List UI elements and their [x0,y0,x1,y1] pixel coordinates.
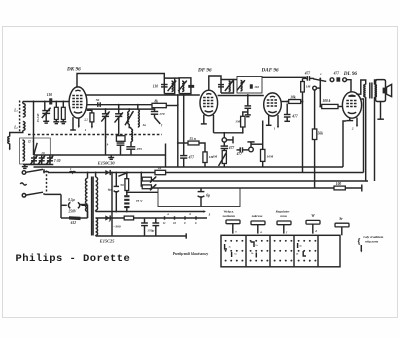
svg-text:0,5µ: 0,5µ [68,198,75,202]
coil unit box [20,138,51,164]
IFT2 coil 1 (arrow) [225,81,233,92]
jack circle 2 (row) [343,78,347,82]
label W [311,214,317,233]
label 6µF [206,194,210,198]
resistor 22k (DK96) [87,110,94,128]
label Przełącznik klawiszowy [173,252,209,256]
output transformer core [370,83,372,99]
label Wyłącz zasilania [222,210,238,234]
svg-text:2b: 2b [295,254,299,256]
label 250V [68,210,77,214]
wire from L2 to antenna coil L6 [10,131,23,137]
switch link (dashed) [46,171,48,193]
capacitor 100 and ground (DAF grid) [245,94,252,117]
wire 18k to vertical [301,101,304,103]
label 15 n [189,137,196,141]
svg-text:6: 6 [105,135,107,139]
label 15-345 (vertical) [36,113,40,122]
jack 2 (pickup circle) [247,142,254,152]
svg-text:9: 9 [184,221,186,225]
coil L4 (oscillator/LW coil) [23,140,25,161]
speaker [376,80,392,102]
svg-text:5a: 5a [234,254,237,256]
svg-text:56k: 56k [318,131,324,135]
jack circle 3 (pickup) [313,85,321,92]
resistor 50 (filter) [125,172,129,191]
label DK 96 [66,67,81,73]
wire DL96 cathode to bus A [343,121,346,167]
bus D [151,187,334,188]
resistor 100 k (DL96 grid) [322,104,343,108]
wire 8k to vertical [166,105,178,107]
label 255 [136,147,143,151]
label E15C25 [99,239,115,244]
rectifier E15C25 (diode) [105,215,110,220]
IFT1 coil 2 (tuned, arrow) [178,81,187,92]
wire mains 2 down [60,194,62,218]
IFT2 capacitor plates [218,85,224,87]
label L2 [13,126,18,130]
svg-text:L2: L2 [13,126,18,130]
potentiometer 1M (volume) [219,149,227,168]
wire jack row to DL96 grid [347,80,352,93]
svg-text:75 V: 75 V [136,199,143,203]
IFT1 coupling capacitor (blob) [188,85,194,88]
svg-text:15 n: 15 n [189,137,196,141]
svg-text:7-30: 7-30 [54,159,61,163]
resistor 110 (series bead in grid wire) [49,98,52,104]
label 1 (pin) [85,128,87,132]
svg-text:e: e [235,229,237,233]
capacitor 477 (AGC) [180,94,187,167]
coil L1 (antenna primary) [20,101,26,134]
label 18k [290,95,296,99]
label 6 [105,135,109,147]
svg-text:477: 477 [188,155,195,159]
svg-text:a: a [260,230,262,234]
label 477 (jack row left) [304,71,311,75]
dashed gang coupling line [28,134,162,136]
svg-text:c: c [309,261,310,263]
label DAF 96 [261,68,279,74]
svg-text:477: 477 [333,71,340,75]
osc trimmer 2 [115,104,123,136]
label 50 [120,183,124,187]
IFT2 capacitor 110 (blob) [250,84,253,88]
svg-text:110: 110 [153,84,158,88]
label 170 [159,112,165,116]
wire bus D end terminal [345,185,362,192]
svg-text:2,2: 2,2 [83,117,88,121]
wire jack row left down [303,78,308,81]
mains switch blade 1 [26,169,48,173]
switch matrix contact dots [225,240,317,262]
wire DF96 anode up to IFT2 [209,76,221,90]
svg-text:zasilania: zasilania [222,214,236,218]
tube DK96 [69,87,87,118]
label 10 [41,151,45,155]
battery tap ticks [165,216,197,219]
capacitor 150µ no.1 [141,218,148,236]
svg-text:8a: 8a [299,246,302,248]
label L1 [13,109,18,113]
label z [208,212,211,216]
label 6µ [108,187,112,191]
svg-text:8k: 8k [155,100,159,104]
label 150µ [147,229,154,233]
svg-text:j: j [285,230,287,234]
svg-text:1M: 1M [212,154,218,158]
svg-text:a: a [33,139,35,143]
wire left vertical from grid wire to tuning-gang rail [33,102,35,156]
wire DL96 screen to bus B [361,99,363,173]
svg-text:Sr: Sr [339,217,343,221]
resistor 10M [251,121,265,168]
bus G (bottom rail) [96,233,187,238]
label zmiana [251,214,263,234]
wire screen line W2 [86,94,264,97]
svg-text:2: 2 [351,127,354,131]
label 110 (IFT1) [153,84,158,88]
wire vertical 320.3 (AVC) down [319,77,321,107]
label 8k [155,100,159,104]
capacitor 255 [126,142,135,156]
wire W4 DK96 to oscillator [87,104,152,106]
svg-text:255: 255 [136,147,143,151]
svg-text:477: 477 [228,146,235,150]
svg-text:250V: 250V [68,210,77,214]
resistor 1M (DAF96 grid) [241,112,248,133]
svg-text:11: 11 [163,221,166,225]
wire rail to bus A [165,144,167,168]
svg-text:Gdy środkiem: Gdy środkiem [363,235,383,239]
svg-text:1k: 1k [158,166,162,170]
label 1M (grid) [209,155,215,159]
wire vertical 314.6 down to 56k [314,90,316,129]
svg-text:zakresu: zakresu [251,214,263,218]
keyboard switch matrix box [221,235,340,266]
capacitor 477 (pickup) [237,147,249,152]
label 110 [47,93,52,97]
label 100 (output) [336,182,342,186]
label ~300 [113,225,120,229]
tube DL96 cathode bar [346,118,353,121]
label 22k [83,117,88,121]
resistor 56k [312,129,316,188]
osc coil 1 (variable) [125,108,133,125]
ground on stator rail [108,155,114,159]
IF transformer 1 loop 1 [164,78,174,94]
bus A (ground rail) [34,166,344,168]
power transformer primary [85,172,88,218]
svg-text:6µ: 6µ [108,187,112,191]
svg-text:L1: L1 [13,109,18,113]
svg-text:DK 96: DK 96 [66,67,81,73]
resistor filament 1 [140,172,151,181]
jack circle 1 (row) [330,78,334,82]
svg-text:Wyłącz.: Wyłącz. [223,210,234,214]
osc coil 3 [131,128,133,142]
tuning gang trimmer C1 [31,156,38,165]
svg-text:150µ: 150µ [147,229,154,233]
wire AF takeoff [214,132,244,134]
label 110 (IFT2) [254,85,259,89]
label Sr [339,217,343,221]
svg-text:110: 110 [47,93,52,97]
switch matrix contact links [225,242,311,263]
wire 15n to grid resistor [199,143,205,152]
push button 1 (power off) [226,220,240,234]
label 612 [71,221,77,225]
svg-text:1b: 1b [251,253,254,255]
label 0,5µF [68,198,75,202]
bus C [151,179,368,181]
svg-text:1M: 1M [306,85,312,89]
fuse on mains wire [69,167,75,173]
resistor 612 (mains dropper) [61,216,88,220]
switch blade band selector [33,143,37,155]
mains terminal 1 [22,171,26,175]
svg-text:d: d [315,229,317,233]
svg-text:włączone: włączone [365,239,379,243]
label 1M (DAF grid) [235,119,241,123]
plug contact (filled) [336,77,340,81]
bus B (B+ rail) [48,172,364,174]
label 1M (volume) [212,154,218,158]
label Gdy środkiem włączone [357,235,383,253]
capacitor 477 (left, jack row) [307,76,309,81]
svg-text:E150C30: E150C30 [97,160,116,165]
capacitor 6µ (filter 1) [114,172,119,213]
ground under trimmer [43,113,49,123]
capacitor 170 (osc) [151,108,158,114]
svg-text:100 k: 100 k [322,99,330,103]
svg-text:Regulator: Regulator [276,210,291,214]
wire vertical 302.5 down to bus B [302,92,304,173]
label + (battery) [108,219,111,224]
wire cap to resistor join [87,205,89,219]
osc coil 2 [137,104,139,127]
resistor 1M (DF96 grid) [203,152,207,167]
tube DL96 [342,92,361,118]
IFT2 box (shielded) [234,77,263,94]
wire W5 DK96 oscillator grid [87,108,155,110]
osc trimmer 1 [101,108,109,155]
push button 3 (tone) [277,221,291,234]
wire filter node to box [126,191,158,193]
resistor 18k (DAF anode) [281,100,301,104]
power transformer secondary 2 [96,218,98,236]
svg-text:W: W [311,214,315,218]
rectifier E150C30 (diode) [105,170,110,175]
tube DF96 [200,90,218,116]
ground under resistor R grid 2 [60,120,66,124]
power transformer core [92,177,94,236]
tube DF96 pin left to ground [201,115,207,124]
svg-text:DF 96: DF 96 [197,68,212,74]
switch blade c [310,78,327,81]
IFT1 coil 1 (tuned, arrow) [168,81,177,92]
svg-text:{: { [357,236,361,246]
ground at gang rail [22,165,28,169]
svg-text:a: a [168,212,170,216]
jack 1 (phono circle) [222,133,233,144]
label 477 (volume) [228,146,235,150]
output transformer secondary [375,85,377,97]
power transformer secondary 1 [95,172,98,212]
node junction on grid wire [33,101,35,103]
trimmer capacitor 15-345 (tuning) [42,108,51,118]
svg-text:tonu: tonu [280,214,287,218]
svg-text:50: 50 [120,183,124,187]
wire battery vertical [111,172,113,236]
svg-text:10: 10 [173,221,177,225]
switch contact f [155,114,164,127]
resistor R grid 1 [54,101,58,120]
resistor 1k (on bus B) [155,170,166,174]
tube DAF96 [264,93,282,116]
label 477 (pickup) [236,152,243,156]
IFT1 capacitor plates [161,85,168,87]
svg-text:477: 477 [236,152,243,156]
mains terminal 2 [22,194,26,198]
capacitor 6µF (filter 2) [198,188,205,207]
ground under resistor R grid 1 [53,120,59,124]
wire secondary top to speaker [375,80,378,85]
wire primary bottom to bus C [365,97,367,181]
svg-text:477: 477 [291,114,298,118]
tuning gang trimmer C3 [47,155,54,165]
svg-text:b: b [190,212,192,216]
filament tap arrow 1 [150,177,156,183]
IFT2 loop 1 [221,80,234,94]
wire secondary bottom down [374,97,376,181]
wire stub to trimmer [44,101,46,110]
coil L6 (antenna coupling) [8,137,10,144]
svg-text:DAF 96: DAF 96 [261,68,279,74]
capacitor 56 (series, on W4) [98,102,100,107]
svg-text:3a: 3a [142,123,147,127]
push button 4 (W) [306,220,320,233]
label 2 (DL96 pin) [351,127,354,131]
push button 5 (Sr) [335,223,349,235]
svg-text:15-345: 15-345 [36,113,40,122]
capacitor 477 (volume in) [221,142,228,148]
link osc coils [129,124,131,128]
svg-text:ł: ł [69,167,71,171]
svg-text:3a: 3a [228,247,232,249]
label DF 96 [197,68,212,74]
capacitor 477 (DAF) [284,101,291,122]
label 1M (pickup) [306,85,312,89]
wire grid line from antenna coil to DK96 [23,101,70,103]
label 477 (AGC) [188,155,195,159]
wire AVC line to jack row [262,76,306,78]
resistor 8k (osc feed) [152,103,166,107]
svg-text:18k: 18k [290,95,296,99]
resistor R grid 2 [61,101,65,120]
push button 2 (band change) [251,221,265,234]
label 1 (DAF pin) [274,127,276,131]
wire DL96 anode to output transformer [356,80,365,94]
svg-text:7a: 7a [255,245,258,247]
stator rail (osc ground rail) [34,154,166,156]
bus E (battery minus) [96,210,206,212]
primary tap arrow [80,204,86,206]
label 7-30 [54,159,61,163]
filament tap arrow 2 [150,184,156,190]
IFT1 loop 2 [175,78,191,94]
padder capacitor (osc) [116,136,125,156]
label a b (taps) [168,212,192,216]
tube DAF96 pin left ground [266,115,272,125]
wire antenna lead down [9,144,11,151]
coil L2 (antenna secondary) [23,122,25,131]
tube DL96 pin arrow down [356,118,358,128]
label U (band switch) [28,139,34,144]
tuning gang bottom rail [23,164,53,166]
label 477 (jack row right) [333,71,340,75]
label Regulator tonu [276,210,291,234]
svg-text:1: 1 [274,127,276,131]
label 75 V [136,199,143,203]
resistor 8 (rect 2) [124,216,133,220]
label 1k [158,166,162,170]
IFT2 coil 2 (arrow) [237,80,245,91]
bus F (rectifier 2 row) [96,217,207,219]
wire DK96 anode to top rail W1 [77,74,164,88]
label 477 (DAF) [291,114,298,118]
title Philips - Dorette [16,253,131,265]
labels 11 10 9 6 [163,221,197,225]
label E150C30 [97,160,116,165]
label DL 96 [343,71,358,77]
tuning gang trimmer C2 [38,155,45,165]
svg-text:E15C25: E15C25 [99,239,115,244]
svg-text:56: 56 [96,98,100,102]
output transformer primary [364,85,366,97]
svg-text:z: z [208,212,211,216]
label 56 [96,98,100,102]
label 56k [318,131,324,135]
tube DF96 pin right down [213,115,215,133]
label c [320,72,322,76]
svg-text:6: 6 [195,221,197,225]
svg-text:9: 9 [107,143,109,147]
switch on bus B [118,172,128,177]
capacitor 15n wire [177,142,188,144]
tube DAF96 pin right arrow [277,115,279,128]
capacitor 15n [188,141,199,145]
svg-text:c: c [320,72,322,76]
capacitor 150µ no.2 [152,218,159,236]
svg-text:Przełącznik klawiszowy: Przełącznik klawiszowy [173,252,209,256]
resistor 1M (pickup input) [301,82,305,93]
svg-text:170: 170 [159,112,165,116]
label 10M [267,154,275,158]
svg-text:U: U [28,140,31,144]
svg-text:1: 1 [85,128,87,132]
resistor filament 2 [141,179,151,189]
svg-text:477: 477 [304,71,311,75]
speaker frame ground [377,102,384,120]
wire vertical from W4 to 15n wire [177,94,179,167]
svg-text:100: 100 [336,182,342,186]
filter choke stack [124,191,129,213]
svg-text:612: 612 [71,221,77,225]
supply box [158,188,240,207]
tube DK96 pin 2 arrow down [78,118,80,129]
